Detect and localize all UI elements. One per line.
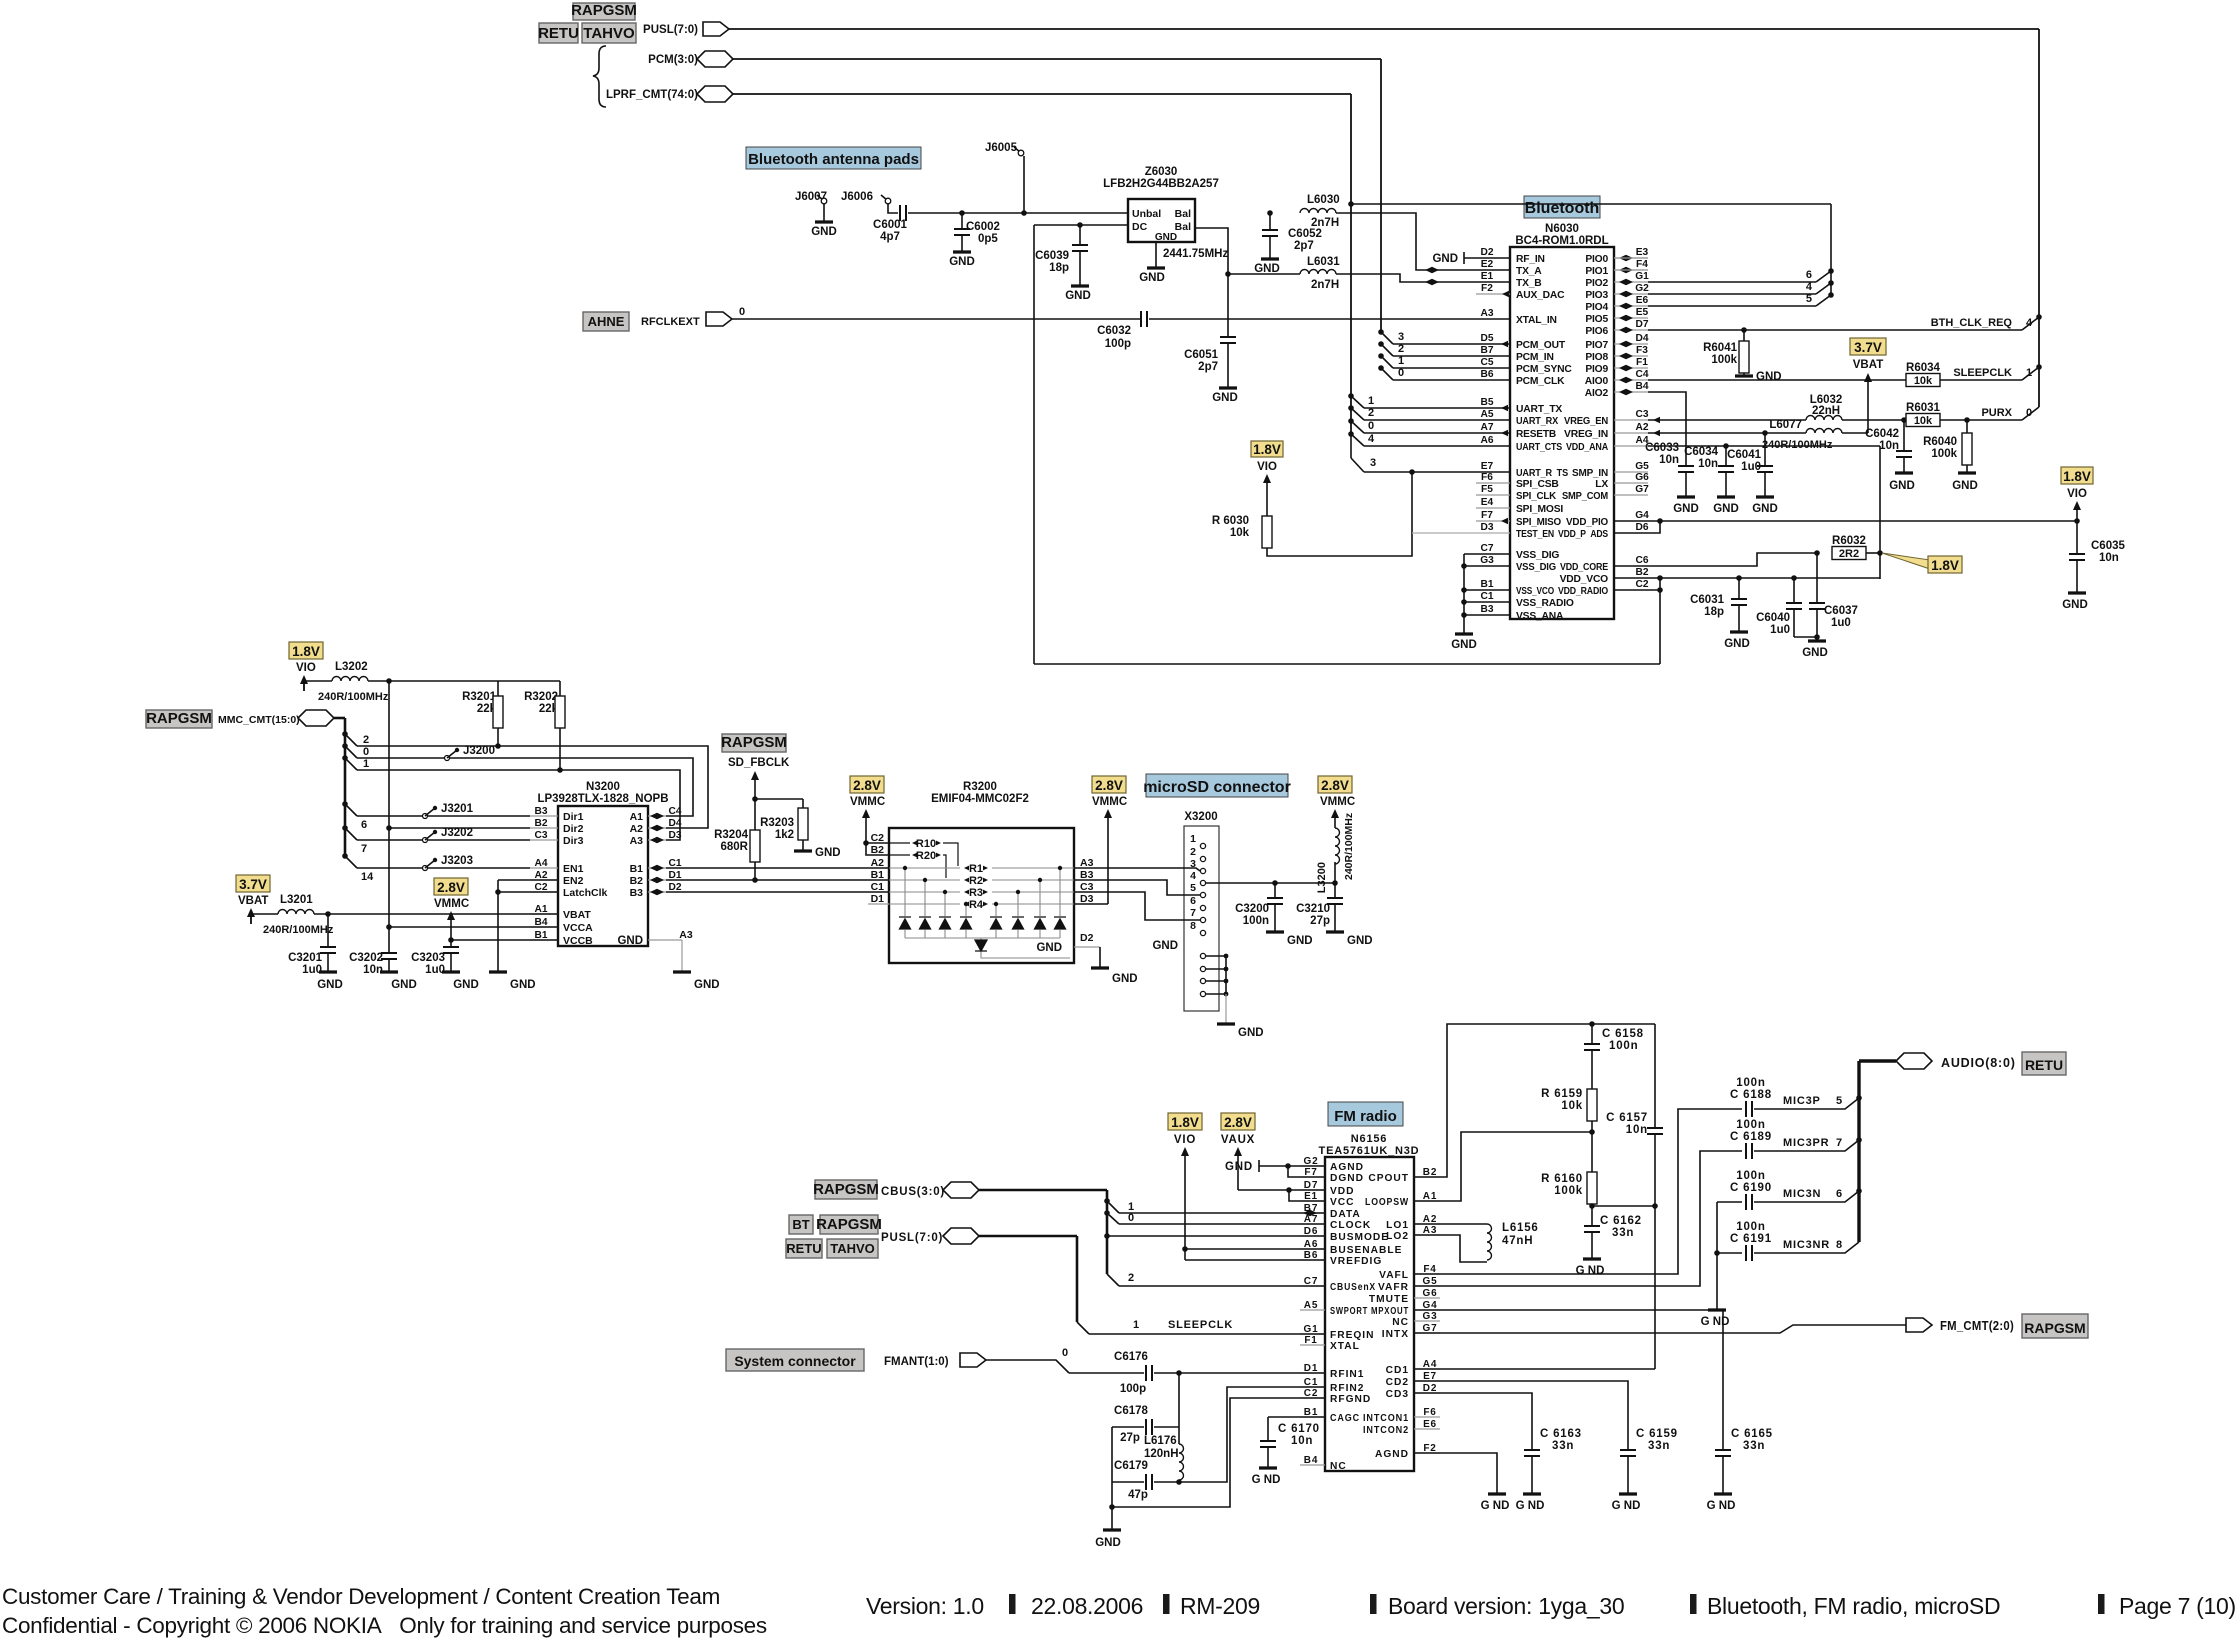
svg-text:A2: A2 [630,823,644,835]
svg-text:Z6030: Z6030 [1145,166,1178,178]
wire VCCB [451,939,558,941]
svg-text:3: 3 [1370,457,1376,469]
capacitor C6002 0p5 [959,210,965,216]
svg-text:RAPGSM: RAPGSM [2024,1320,2085,1336]
labels BT RAPGSM RETU TAHVO [789,1215,813,1234]
svg-text:4: 4 [1368,433,1375,445]
svg-text:VAFL: VAFL [1379,1270,1409,1281]
svg-text:C 6190: C 6190 [1730,1182,1772,1194]
svg-text:GND: GND [949,256,975,268]
capacitor C6042 10n [1903,420,1905,451]
svg-text:2: 2 [1368,407,1374,419]
svg-text:A3: A3 [679,929,693,941]
svg-text:A5: A5 [1304,1300,1318,1311]
callout 1.8V [1882,553,1930,569]
svg-text:GND: GND [1287,935,1313,947]
power 2.8V VMMC at EMIF [850,776,884,793]
svg-text:F5: F5 [1481,484,1493,495]
svg-text:FREQIN: FREQIN [1330,1330,1375,1341]
capacitor C6188 100n [1746,1101,1752,1117]
svg-text:C 6189: C 6189 [1730,1131,1772,1143]
svg-text:G3: G3 [1423,1311,1438,1322]
svg-text:C6035: C6035 [2091,540,2125,552]
svg-text:G ND: G ND [1707,1500,1736,1512]
svg-text:RFCLKEXT: RFCLKEXT [641,316,700,328]
svg-text:FM radio: FM radio [1334,1108,1397,1125]
bus FMANT connector [960,1353,986,1367]
svg-text:L6030: L6030 [1307,194,1340,206]
svg-text:F1: F1 [1304,1335,1317,1346]
svg-text:LP3928TLX-1828_NOPB: LP3928TLX-1828_NOPB [537,793,668,805]
svg-text:C 6159: C 6159 [1636,1428,1678,1440]
svg-text:R3: R3 [969,887,983,899]
svg-text:Page 7 (10): Page 7 (10) [2119,1593,2236,1619]
svg-text:5: 5 [1190,882,1196,894]
IC N6030 BC4-ROM1.0RDL [1510,247,1614,619]
svg-text:0: 0 [1062,1347,1068,1359]
label RETU [539,23,578,43]
bus AUDIO(8:0) [1857,1061,1860,1242]
svg-text:C1: C1 [871,881,885,893]
svg-text:G ND: G ND [1252,1474,1281,1486]
svg-text:C6031: C6031 [1690,594,1724,606]
svg-text:GND: GND [1889,480,1915,492]
svg-text:VIO: VIO [296,662,316,674]
svg-text:R3204: R3204 [714,829,748,841]
svg-text:AIO2: AIO2 [1585,388,1609,399]
svg-text:SPI_MOSI: SPI_MOSI [1516,504,1563,515]
svg-text:C 6165: C 6165 [1731,1428,1773,1440]
svg-text:VMMC: VMMC [1092,796,1127,808]
svg-text:7: 7 [1836,1137,1842,1149]
svg-text:0: 0 [1128,1212,1134,1224]
label TAHVO [582,23,636,43]
svg-text:BUSMODE: BUSMODE [1330,1232,1389,1243]
svg-text:1u0: 1u0 [1831,617,1851,629]
ground RF net [1111,1427,1113,1529]
svg-text:Bal: Bal [1175,208,1191,220]
wire VAFR to MIC3PR [1414,1151,1742,1286]
svg-text:33n: 33n [1648,1440,1670,1452]
svg-text:1k2: 1k2 [775,829,794,841]
svg-text:RAPGSM: RAPGSM [146,710,212,727]
svg-text:SPI_CSB: SPI_CSB [1516,479,1559,490]
svg-text:10n: 10n [1879,440,1899,452]
svg-text:100k: 100k [1554,1185,1583,1197]
svg-text:B1: B1 [871,869,885,881]
svg-text:RF_IN: RF_IN [1516,254,1545,265]
svg-text:10n: 10n [1659,454,1679,466]
svg-text:System connector: System connector [734,1353,856,1369]
capacitor C6159 33n [1620,1450,1636,1456]
svg-text:NC: NC [1330,1461,1347,1472]
svg-text:VDD_P ADS: VDD_P ADS [1558,529,1608,540]
svg-text:F3: F3 [1636,345,1648,356]
svg-text:R2: R2 [969,875,983,887]
svg-text:GND: GND [1152,940,1178,952]
pins TX_A/TX_B double arrows [1425,267,1432,273]
svg-text:0: 0 [739,306,745,318]
svg-text:RAPGSM: RAPGSM [721,734,787,751]
svg-text:VAFR: VAFR [1378,1282,1409,1293]
svg-text:PCM_SYNC: PCM_SYNC [1516,364,1572,375]
svg-text:G6: G6 [1423,1288,1438,1299]
svg-text:R 6160: R 6160 [1541,1173,1583,1185]
svg-text:G ND: G ND [1576,1265,1605,1277]
svg-text:R4: R4 [969,899,984,911]
svg-text:L3201: L3201 [280,894,313,906]
svg-text:C3203: C3203 [411,952,445,964]
svg-text:RETU: RETU [786,1241,821,1256]
net PURX VREG_EN L6032 22nH [1648,419,1806,421]
svg-text:R6034: R6034 [1906,362,1940,374]
svg-text:VDD_CORE: VDD_CORE [1560,562,1608,573]
svg-text:B2: B2 [630,875,644,887]
svg-text:B1: B1 [1480,579,1493,590]
svg-text:microSD connector: microSD connector [1143,779,1291,796]
svg-text:R3203: R3203 [760,817,794,829]
svg-text:AHNE: AHNE [588,314,625,329]
pin D1 stub [868,903,889,905]
ground C6040/C6037 [1794,636,1817,638]
svg-text:PIO2: PIO2 [1585,278,1608,289]
svg-text:VCCA: VCCA [563,922,593,934]
svg-text:LX: LX [1595,479,1608,490]
svg-text:BC4-ROM1.0RDL: BC4-ROM1.0RDL [1515,235,1608,247]
svg-text:GND: GND [1155,232,1177,243]
svg-text:G4: G4 [1635,510,1649,521]
label RAPGSM MMC bus [146,710,212,728]
label RAPGSM (top) [573,3,635,20]
svg-text:F6: F6 [1481,472,1493,483]
svg-text:GND: GND [617,935,643,947]
svg-text:3.7V: 3.7V [1854,340,1882,355]
svg-text:GND: GND [1112,973,1138,985]
svg-text:PURX: PURX [1981,407,2012,419]
svg-text:GND: GND [1095,1537,1121,1549]
svg-text:47p: 47p [1128,1489,1148,1501]
svg-text:VIO: VIO [1174,1134,1196,1146]
svg-text:C6002: C6002 [966,221,1000,233]
svg-text:VSS_VCO: VSS_VCO [1516,586,1554,597]
svg-text:240R/100MHz: 240R/100MHz [1343,813,1355,880]
label Bluetooth antenna pads [746,147,921,169]
bus PUSL vertical right [2038,29,2040,407]
bus fan bits 6/7/14 [342,801,348,807]
svg-text:TAHVO: TAHVO [830,1241,875,1256]
svg-text:5: 5 [1806,293,1812,305]
svg-text:240R/100MHz: 240R/100MHz [318,691,389,703]
svg-text:G ND: G ND [1612,1500,1641,1512]
jumper J3203 [357,867,530,869]
capacitor C6039 18p [1077,222,1083,228]
svg-text:R3200: R3200 [963,781,997,793]
svg-text:VDD_VCO: VDD_VCO [1560,574,1609,585]
svg-text:FMANT(1:0): FMANT(1:0) [884,1356,949,1368]
svg-text:CLOCK: CLOCK [1330,1220,1371,1231]
svg-text:1u0: 1u0 [1770,624,1790,636]
svg-text:10n: 10n [1291,1435,1313,1447]
net CD3 to C6163 [1414,1393,1532,1450]
svg-text:100n: 100n [1736,1119,1765,1131]
svg-text:100p: 100p [1105,338,1131,350]
svg-text:TAHVO: TAHVO [583,25,635,42]
svg-text:B3: B3 [1480,604,1493,615]
svg-text:LO1: LO1 [1386,1220,1409,1231]
svg-text:SMP_IN: SMP_IN [1572,468,1608,479]
svg-text:RFIN2: RFIN2 [1330,1383,1364,1394]
IC N6156 TEA5761UK_N3D [1325,1157,1414,1471]
svg-text:X3200: X3200 [1184,811,1217,823]
bus UART fan bits 1/2/0/4 [1350,204,1352,436]
svg-text:0: 0 [1368,420,1374,432]
wire DC feed [1034,224,1128,226]
power 2.8V VMMC above L3200 [1318,776,1352,793]
svg-text:2: 2 [363,734,369,746]
svg-text:6: 6 [1836,1188,1842,1200]
svg-text:18p: 18p [1704,606,1724,618]
svg-text:VBAT: VBAT [563,909,591,921]
svg-text:Confidential - Copyright © 200: Confidential - Copyright © 2006 NOKIA On… [2,1613,767,1638]
svg-text:2p7: 2p7 [1294,240,1314,252]
svg-text:RESETB: RESETB [1516,429,1556,440]
svg-text:TEST_EN: TEST_EN [1516,529,1554,540]
svg-text:GND: GND [1036,942,1062,954]
svg-text:2n7H: 2n7H [1311,279,1339,291]
svg-text:C 6162: C 6162 [1600,1215,1642,1227]
svg-text:GND: GND [1451,639,1477,651]
svg-text:MIC3PR: MIC3PR [1783,1137,1829,1149]
svg-text:Dir1: Dir1 [563,811,584,823]
svg-text:GND: GND [1724,638,1750,650]
svg-text:2n7H: 2n7H [1311,217,1339,229]
svg-text:E5: E5 [1636,307,1649,318]
svg-text:A1: A1 [630,811,644,823]
svg-text:GND: GND [1713,503,1739,515]
capacitor C6041 1u0 [1764,433,1766,466]
wire TEST_EN grey [1412,532,1510,534]
svg-text:N3200: N3200 [586,781,620,793]
resistor R6030 10k pull-up [1251,441,1283,457]
svg-text:MPXOUT: MPXOUT [1371,1306,1409,1317]
svg-text:1: 1 [1133,1319,1139,1331]
svg-text:B2: B2 [534,818,547,829]
svg-text:GND: GND [2062,599,2088,611]
svg-text:VMMC: VMMC [1320,796,1355,808]
svg-text:PIO5: PIO5 [1585,314,1608,325]
svg-text:C 6158: C 6158 [1602,1028,1644,1040]
svg-text:1: 1 [1368,395,1374,407]
svg-text:D4: D4 [1635,333,1648,344]
wires MMC data lines to EMIF [666,867,889,869]
bus entry CBUSenX bit 2 [1107,1274,1119,1286]
power 2.8V VMMC microSD [1092,776,1126,793]
svg-text:GND: GND [510,979,536,991]
svg-text:VBAT: VBAT [238,895,268,907]
svg-text:MMC_CMT(15:0): MMC_CMT(15:0) [218,714,300,726]
svg-text:PCM(3:0): PCM(3:0) [648,54,698,66]
svg-text:GND: GND [1065,290,1091,302]
resistor R6040 100k [1966,420,1968,433]
svg-text:D2: D2 [1480,247,1493,258]
svg-text:G ND: G ND [1701,1316,1730,1328]
svg-text:2R2: 2R2 [1839,548,1859,560]
svg-text:B6: B6 [1480,369,1493,380]
svg-text:2441.75MHz: 2441.75MHz [1163,248,1228,260]
bus CBUS connector [943,1182,979,1198]
svg-text:C7: C7 [1480,543,1493,554]
svg-text:120nH: 120nH [1144,1448,1179,1460]
svg-text:UART_RX: UART_RX [1516,416,1558,427]
svg-text:SMP_COM: SMP_COM [1562,491,1608,502]
svg-text:1.8V: 1.8V [1171,1115,1199,1130]
svg-text:27p: 27p [1310,915,1330,927]
svg-text:VDD: VDD [1330,1186,1355,1197]
svg-text:2: 2 [1190,846,1196,858]
svg-text:G1: G1 [1635,271,1649,282]
svg-text:J3200: J3200 [463,745,495,757]
wire DC to 1.8V rail [1033,225,1035,664]
svg-text:TX_B: TX_B [1516,278,1542,289]
jumper J3201 [357,815,530,817]
svg-text:SD_FBCLK: SD_FBCLK [728,757,790,769]
svg-text:Version: 1.0: Version: 1.0 [866,1593,984,1619]
svg-text:PIO1: PIO1 [1585,266,1608,277]
svg-text:Bluetooth: Bluetooth [1525,200,1600,217]
svg-text:C6178: C6178 [1114,1405,1148,1417]
svg-text:R6041: R6041 [1703,342,1737,354]
svg-text:100k: 100k [1931,448,1957,460]
svg-text:EMIF04-MMC02F2: EMIF04-MMC02F2 [931,793,1029,805]
svg-text:C3: C3 [534,830,547,841]
svg-text:BTH_CLK_REQ: BTH_CLK_REQ [1931,317,2013,329]
ground Z6030 [1155,242,1157,267]
svg-text:3: 3 [1398,331,1404,343]
svg-text:Dir2: Dir2 [563,823,584,835]
svg-text:D4: D4 [668,818,681,829]
svg-text:1: 1 [1398,355,1404,367]
capacitor C6052 2p7 [1267,210,1273,216]
capacitor C6035 10n [2076,521,2078,554]
svg-text:CPOUT: CPOUT [1368,1173,1409,1184]
svg-text:DATA: DATA [1330,1209,1361,1220]
svg-text:VSS_ANA: VSS_ANA [1516,611,1564,622]
svg-text:LatchClk: LatchClk [563,887,608,899]
svg-text:A7: A7 [1480,422,1493,433]
capacitor C3200 100n [1274,883,1276,898]
svg-text:L3202: L3202 [335,661,368,673]
svg-text:E7: E7 [1481,461,1494,472]
bus entries PIO2/3/4 bits 6/4/5 [1828,268,1834,274]
svg-text:R6032: R6032 [1832,535,1866,547]
svg-text:C3210: C3210 [1296,903,1330,915]
svg-text:4: 4 [1806,281,1813,293]
svg-text:N6030: N6030 [1545,223,1579,235]
wire to RFIN2 [1179,1387,1325,1482]
svg-text:14: 14 [361,871,374,883]
svg-text:1.8V: 1.8V [2063,469,2091,484]
svg-text:B1: B1 [630,863,644,875]
svg-text:VMMC: VMMC [850,796,885,808]
svg-text:VBAT: VBAT [1853,359,1883,371]
svg-text:C2: C2 [1635,579,1648,590]
power 1.8V VIO [1168,1113,1202,1130]
svg-text:0: 0 [1398,367,1404,379]
svg-text:E3: E3 [1636,247,1649,258]
resistors R1-R4 rows [889,867,960,869]
ESD diodes [904,868,906,916]
svg-text:A5: A5 [1480,409,1493,420]
svg-text:GND: GND [1347,935,1373,947]
label microSD connector [1146,774,1288,797]
svg-text:VCCB: VCCB [563,935,593,947]
svg-text:F6: F6 [1423,1407,1436,1418]
svg-text:CD2: CD2 [1386,1377,1409,1388]
brace [593,46,606,107]
capacitor C3203 1u0 [450,940,452,947]
wire PIO6 BTH_CLK_REQ [1648,329,2022,331]
svg-text:J3201: J3201 [441,803,474,815]
inductor L3200 240R/100MHz vertical [1334,862,1336,883]
svg-text:PIO6: PIO6 [1585,326,1608,337]
svg-text:PIO4: PIO4 [1585,302,1608,313]
label AHNE [583,312,629,331]
svg-text:2: 2 [1128,1272,1134,1284]
jumper J3202 [357,839,530,841]
power 1.8V VIO right [2061,467,2093,484]
wire divider to LOOPSW [1414,1132,1592,1201]
svg-text:33n: 33n [1743,1440,1765,1452]
svg-text:R20: R20 [916,850,936,862]
svg-text:VCC: VCC [1330,1197,1355,1208]
capacitor C6165 33n [1715,1450,1731,1456]
svg-text:LO2: LO2 [1386,1231,1409,1242]
svg-text:AUDIO(8:0): AUDIO(8:0) [1941,1056,2016,1070]
svg-text:10k: 10k [1914,375,1933,387]
svg-text:L6176: L6176 [1144,1435,1177,1447]
svg-text:4: 4 [1190,870,1196,882]
jumper J3200 [445,756,450,761]
svg-text:GND: GND [1752,503,1778,515]
label FM radio [1328,1102,1403,1126]
svg-text:R6040: R6040 [1923,436,1957,448]
svg-text:PIO7: PIO7 [1585,340,1608,351]
svg-text:C3202: C3202 [349,952,383,964]
svg-text:E1: E1 [1481,271,1494,282]
power 2.8V VMMC [434,878,468,895]
capacitor C6157 10n [1654,1024,1656,1128]
svg-text:BUSENABLE: BUSENABLE [1330,1245,1402,1256]
svg-text:C6051: C6051 [1184,349,1218,361]
wire B3 to pin5 [1074,880,1200,895]
svg-text:D7: D7 [1635,319,1648,330]
svg-text:VSS_DIG: VSS_DIG [1516,550,1559,561]
ground mic return [1716,1253,1718,1309]
svg-text:BT: BT [792,1217,809,1232]
svg-text:A3: A3 [630,835,644,847]
svg-text:D5: D5 [1480,333,1493,344]
svg-text:100n: 100n [1736,1170,1765,1182]
svg-text:1.8V: 1.8V [1931,558,1959,573]
capacitor C6170 10n [1268,1416,1325,1418]
svg-text:PCM_OUT: PCM_OUT [1516,340,1566,351]
svg-text:1: 1 [1190,833,1196,845]
svg-text:VIO: VIO [2067,488,2087,500]
svg-text:CD1: CD1 [1386,1365,1409,1376]
svg-text:DC: DC [1132,221,1148,233]
svg-text:D2: D2 [1080,932,1094,944]
pins PIO0-PIO9/AIO arrows [1619,255,1626,261]
